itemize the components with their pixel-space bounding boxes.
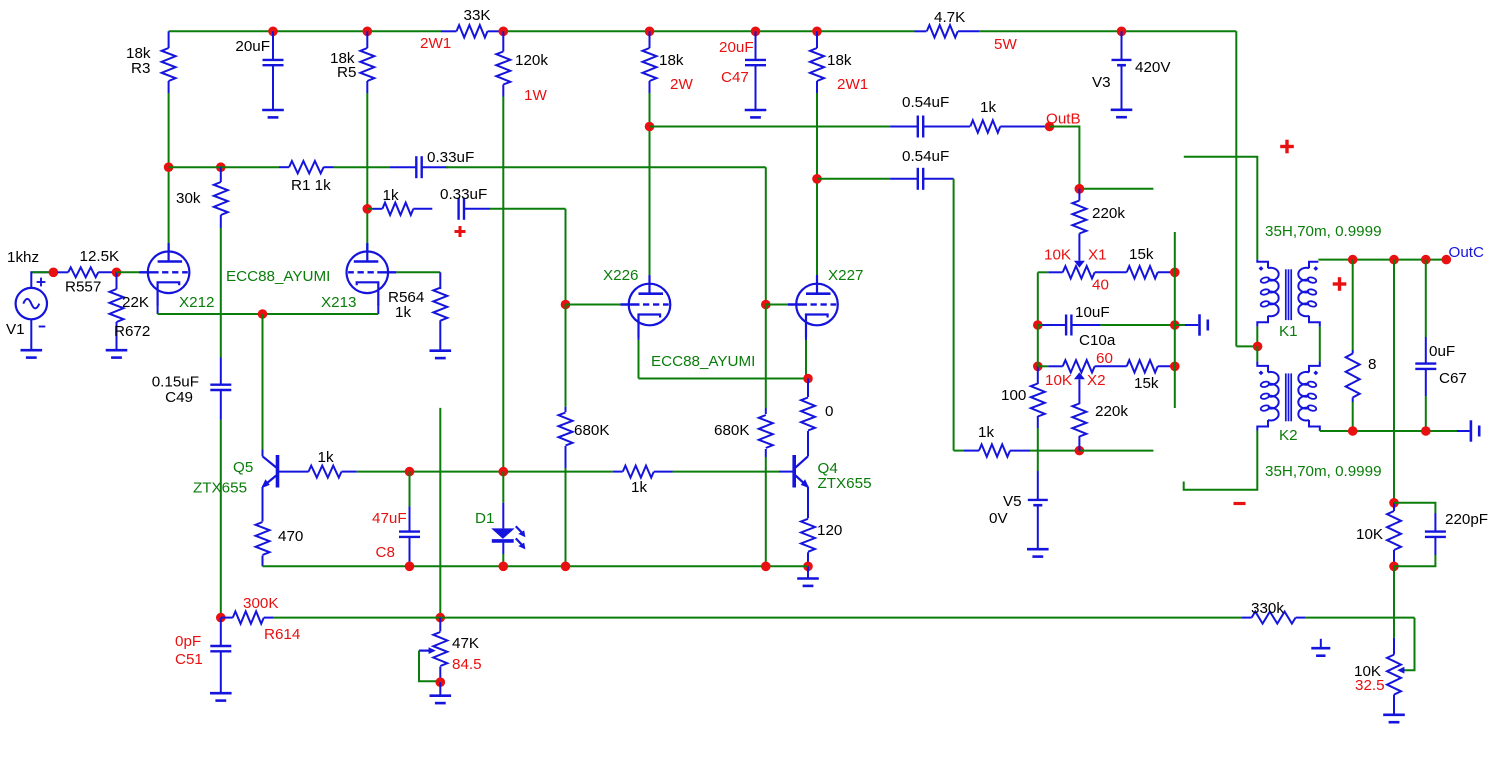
svg-text:C49: C49	[165, 389, 193, 406]
svg-text:47uF: 47uF	[372, 510, 407, 527]
svg-text:40: 40	[1092, 277, 1109, 294]
svg-text:2W1: 2W1	[420, 35, 451, 52]
svg-text:420V: 420V	[1135, 59, 1171, 76]
svg-text:33K: 33K	[464, 7, 491, 24]
svg-text:20uF: 20uF	[235, 38, 270, 55]
svg-text:1k: 1k	[980, 99, 996, 116]
svg-text:R614: R614	[264, 626, 300, 643]
svg-text:V5: V5	[1003, 493, 1022, 510]
svg-text:330k: 330k	[1251, 600, 1284, 617]
svg-text:84.5: 84.5	[452, 656, 482, 673]
svg-text:X212: X212	[179, 294, 214, 311]
svg-text:1W: 1W	[524, 87, 547, 104]
svg-text:0pF: 0pF	[175, 633, 201, 650]
svg-text:OutC: OutC	[1449, 244, 1484, 261]
svg-text:0uF: 0uF	[1429, 343, 1455, 360]
svg-text:C10a: C10a	[1079, 332, 1116, 349]
svg-text:0.54uF: 0.54uF	[902, 148, 949, 165]
svg-text:1k: 1k	[318, 449, 334, 466]
svg-text:10K: 10K	[1356, 526, 1383, 543]
svg-text:X226: X226	[603, 267, 638, 284]
svg-text:D1: D1	[475, 510, 494, 527]
svg-text:47K: 47K	[452, 635, 479, 652]
svg-text:1k: 1k	[631, 479, 647, 496]
svg-text:X213: X213	[321, 294, 356, 311]
svg-text:220k: 220k	[1095, 403, 1128, 420]
svg-text:120: 120	[817, 522, 842, 539]
svg-text:X227: X227	[828, 267, 863, 284]
svg-text:V3: V3	[1092, 74, 1111, 91]
svg-text:35H,70m, 0.9999: 35H,70m, 0.9999	[1265, 463, 1382, 480]
svg-text:15k: 15k	[1134, 375, 1159, 392]
svg-text:Q5: Q5	[233, 459, 253, 476]
svg-text:1k: 1k	[978, 424, 994, 441]
svg-text:35H,70m, 0.9999: 35H,70m, 0.9999	[1265, 223, 1382, 240]
svg-text:18k: 18k	[827, 52, 852, 69]
svg-text:32.5: 32.5	[1355, 677, 1385, 694]
svg-text:C51: C51	[175, 651, 203, 668]
svg-text:120k: 120k	[515, 52, 548, 69]
svg-text:2W1: 2W1	[837, 76, 868, 93]
svg-text:ZTX655: ZTX655	[818, 475, 872, 492]
svg-text:10K: 10K	[1045, 372, 1072, 389]
svg-text:100: 100	[1001, 387, 1026, 404]
svg-text:680K: 680K	[574, 422, 609, 439]
svg-text:R557: R557	[65, 279, 101, 296]
svg-text:2W: 2W	[670, 76, 693, 93]
svg-text:0.54uF: 0.54uF	[902, 94, 949, 111]
svg-text:ECC88_AYUMI: ECC88_AYUMI	[651, 353, 755, 370]
svg-text:15k: 15k	[1129, 246, 1154, 263]
svg-text:30k: 30k	[176, 190, 201, 207]
svg-text:60: 60	[1096, 350, 1113, 367]
svg-text:R1 1k: R1 1k	[291, 177, 331, 194]
svg-text:0: 0	[825, 403, 833, 420]
svg-text:10uF: 10uF	[1075, 304, 1110, 321]
svg-text:18k: 18k	[659, 52, 684, 69]
svg-text:C47: C47	[721, 69, 749, 86]
svg-text:R5: R5	[337, 64, 356, 81]
svg-text:1k: 1k	[395, 304, 411, 321]
svg-text:0V: 0V	[989, 510, 1008, 527]
svg-text:8: 8	[1368, 356, 1376, 373]
svg-text:K1: K1	[1279, 323, 1298, 340]
svg-text:680K: 680K	[714, 422, 749, 439]
svg-text:20uF: 20uF	[719, 39, 754, 56]
svg-text:12.5K: 12.5K	[80, 248, 120, 265]
svg-text:4.7K: 4.7K	[934, 9, 965, 26]
svg-text:220pF: 220pF	[1445, 511, 1488, 528]
svg-text:22K: 22K	[122, 294, 149, 311]
svg-text:K2: K2	[1279, 427, 1298, 444]
svg-text:220k: 220k	[1092, 205, 1125, 222]
svg-text:V1: V1	[6, 321, 25, 338]
svg-text:1khz: 1khz	[7, 249, 39, 266]
svg-text:300K: 300K	[243, 595, 278, 612]
svg-text:ZTX655: ZTX655	[193, 480, 247, 497]
svg-text:X2: X2	[1087, 372, 1106, 389]
svg-text:X1: X1	[1088, 247, 1107, 264]
svg-text:0.33uF: 0.33uF	[440, 186, 487, 203]
svg-text:1k: 1k	[383, 187, 399, 204]
svg-text:470: 470	[278, 528, 303, 545]
svg-text:0.15uF: 0.15uF	[152, 374, 199, 391]
svg-text:R672: R672	[114, 323, 150, 340]
svg-text:R3: R3	[131, 60, 150, 77]
svg-text:0.33uF: 0.33uF	[427, 149, 474, 166]
svg-text:OutB: OutB	[1046, 111, 1081, 128]
svg-text:C8: C8	[376, 544, 395, 561]
svg-text:10K: 10K	[1044, 247, 1071, 264]
svg-text:C67: C67	[1439, 370, 1467, 387]
svg-text:ECC88_AYUMI: ECC88_AYUMI	[226, 268, 330, 285]
svg-text:5W: 5W	[994, 36, 1017, 53]
